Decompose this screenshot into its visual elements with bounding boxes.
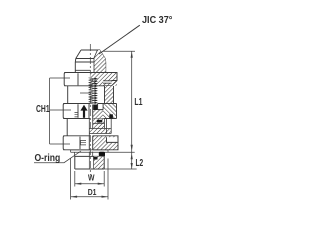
L1/L2 extension line middle [108, 151, 135, 153]
svg-text:D1: D1 [88, 187, 97, 197]
W extension lines [74, 171, 76, 187]
O-ring leader [34, 151, 81, 163]
flow direction arrow in bore [80, 105, 87, 118]
svg-text:O-ring: O-ring [35, 152, 61, 163]
L1 extension line top [103, 50, 135, 52]
svg-text:L2: L2 [136, 157, 144, 169]
L1 dimension line [131, 51, 133, 152]
internal thread / spring zigzag at bore [89, 78, 98, 105]
svg-text:CH1: CH1 [36, 103, 50, 115]
neck wall right section [105, 86, 114, 104]
JIC nose cone right section [90, 50, 105, 73]
bulkhead neck left exterior [68, 86, 91, 104]
W dimension line [75, 183, 104, 185]
lower neck right section (bulkhead washer stack) [89, 119, 111, 136]
svg-text:L1: L1 [134, 96, 142, 108]
threaded stud right section [89, 157, 103, 170]
JIC nose cone left exterior [75, 50, 90, 73]
O-ring flange washer [71, 150, 108, 152]
D1 extension lines [70, 159, 72, 200]
CH1 leader bracket [50, 78, 71, 144]
svg-text:W: W [88, 173, 95, 183]
locknut hex (bottom) left exterior [63, 136, 90, 150]
L2 dimension line [131, 152, 133, 169]
O-ring seal (section, filled) [99, 152, 105, 157]
label JIC 37 [142, 15, 173, 27]
CH1 hex right section [89, 104, 117, 119]
body hex right section [90, 73, 117, 86]
CH1 hex (middle) left exterior [63, 104, 90, 119]
locknut hex right section [89, 136, 118, 150]
centerline [89, 44, 91, 175]
JIC 37 leader line [99, 25, 140, 54]
lower neck left exterior [66, 119, 68, 136]
D1 dimension line [71, 196, 108, 198]
threaded stud left exterior [75, 156, 105, 169]
O-ring groove [75, 152, 105, 157]
body hex (upper) left exterior [64, 73, 90, 86]
L2 extension line bottom [96, 168, 137, 170]
svg-text:JIC 37°: JIC 37° [142, 15, 173, 27]
